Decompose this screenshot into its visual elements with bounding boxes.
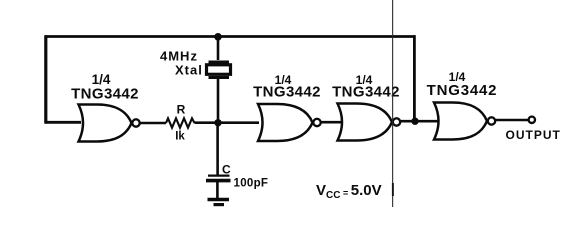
svg-text:OUTPUT: OUTPUT — [506, 128, 561, 142]
crystal Y1 4MHz — [207, 62, 231, 78]
NOR gate U1C body — [338, 104, 401, 141]
label: 1/4 TNG3442 (gate 3) — [332, 73, 400, 101]
wire: gate 1 input — [45, 121, 81, 124]
label: 1/4 TNG3442 (gate 1) — [71, 72, 139, 103]
wire: gate 1 output to resistor — [140, 122, 166, 125]
wire: left vertical feedback drop — [44, 35, 47, 123]
wire: feedback rail down to crystal — [217, 37, 220, 60]
svg-text:TNG3442: TNG3442 — [71, 86, 139, 103]
NOR gate U1D body — [434, 103, 495, 140]
svg-text:TNG3442: TNG3442 — [332, 84, 400, 101]
svg-text:TNG3442: TNG3442 — [427, 82, 498, 99]
wire: crystal to junction node — [217, 79, 220, 123]
svg-text:4MHz: 4MHz — [160, 49, 198, 64]
label: 1/4 TNG3442 (gate 4) — [427, 70, 498, 99]
svg-text:100pF: 100pF — [234, 178, 269, 190]
svg-text:TNG3442: TNG3442 — [253, 84, 321, 101]
svg-text:C: C — [222, 163, 231, 177]
wire: resistor to gate 2 input — [195, 121, 260, 124]
wire: gate 4 output to terminal — [495, 119, 528, 122]
node: crystal top junction on feedback rail — [214, 33, 222, 41]
node: R / crystal / C junction — [214, 119, 221, 126]
NOR gate U1B body — [258, 104, 321, 141]
wire: gate 3 output to gate 4 input — [400, 120, 438, 123]
svg-text:Ik: Ik — [175, 131, 185, 143]
node: feedback junction at gate 4 input — [411, 118, 418, 125]
label: 4MHz Xtal — [160, 49, 203, 78]
svg-text:Xtal: Xtal — [175, 63, 203, 78]
svg-text:R: R — [177, 103, 186, 117]
capacitor C 100pF — [206, 163, 268, 190]
output terminal — [529, 117, 535, 123]
wire: right vertical feedback riser — [413, 35, 416, 121]
wire: top feedback rail — [45, 35, 416, 38]
resistor R 1k — [166, 103, 195, 143]
wire: capacitor to ground — [216, 182, 219, 198]
NOR gate U1A body — [79, 105, 140, 142]
label: 1/4 TNG3442 (gate 2) — [253, 73, 321, 101]
wire: gate 2 output to gate 3 input — [321, 121, 342, 124]
ground — [208, 200, 230, 205]
wire: junction node down to capacitor — [216, 123, 219, 175]
